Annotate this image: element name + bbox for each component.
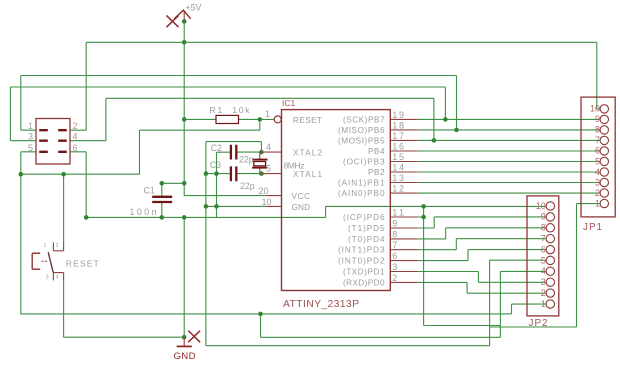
svg-text:8: 8 [392, 229, 397, 239]
svg-text:5: 5 [595, 156, 600, 166]
svg-text:1: 1 [541, 299, 546, 309]
svg-text:JP2: JP2 [529, 318, 548, 329]
svg-text:3: 3 [46, 275, 49, 281]
svg-text:1: 1 [595, 198, 600, 208]
svg-text:(TXD)PD1: (TXD)PD1 [343, 267, 385, 276]
svg-text:10: 10 [536, 201, 546, 211]
svg-text:3: 3 [595, 177, 600, 187]
svg-text:GND: GND [174, 351, 196, 362]
svg-text:13: 13 [392, 173, 404, 183]
svg-text:4: 4 [541, 266, 546, 276]
svg-text:(MISO)PB6: (MISO)PB6 [338, 126, 385, 135]
svg-text:8: 8 [541, 223, 546, 233]
svg-text:C1: C1 [144, 186, 155, 196]
svg-text:2: 2 [595, 188, 600, 198]
svg-text:VCC: VCC [292, 192, 311, 201]
svg-text:(SCK)PB7: (SCK)PB7 [343, 115, 385, 124]
svg-text:JP1: JP1 [583, 222, 602, 233]
svg-text:2: 2 [392, 273, 397, 283]
svg-text:+5V: +5V [186, 3, 202, 13]
svg-text:11: 11 [392, 207, 404, 217]
svg-text:17: 17 [392, 131, 404, 141]
svg-text:2: 2 [73, 121, 78, 131]
svg-text:(INT0)PD2: (INT0)PD2 [338, 257, 385, 266]
svg-text:14: 14 [392, 162, 404, 172]
svg-text:2: 2 [56, 243, 59, 249]
svg-text:7: 7 [392, 240, 397, 250]
svg-text:(RXD)PD0: (RXD)PD0 [343, 278, 385, 287]
svg-text:6: 6 [392, 251, 397, 261]
svg-text:19: 19 [392, 110, 404, 120]
svg-text:PB4: PB4 [368, 147, 385, 156]
svg-text:(INT1)PD3: (INT1)PD3 [338, 246, 385, 255]
svg-text:16: 16 [392, 141, 404, 151]
svg-text:3: 3 [28, 132, 33, 142]
svg-text:C3: C3 [210, 160, 221, 170]
svg-text:18: 18 [392, 120, 404, 130]
svg-text:10: 10 [262, 197, 272, 207]
svg-text:4: 4 [266, 142, 271, 152]
svg-text:10: 10 [590, 104, 600, 114]
svg-text:3: 3 [541, 277, 546, 287]
svg-text:9: 9 [595, 114, 600, 124]
svg-text:5: 5 [541, 255, 546, 265]
svg-text:4: 4 [56, 275, 59, 281]
svg-text:XTAL2: XTAL2 [293, 148, 322, 157]
svg-text:12: 12 [392, 184, 404, 194]
svg-text:7: 7 [541, 233, 546, 243]
svg-text:XTAL1: XTAL1 [293, 170, 322, 179]
svg-text:1: 1 [265, 109, 270, 119]
svg-text:4: 4 [595, 167, 600, 177]
svg-text:20: 20 [259, 186, 269, 196]
svg-text:RESET: RESET [293, 116, 322, 125]
svg-text:(OCI)PB3: (OCI)PB3 [343, 157, 385, 166]
svg-text:22p: 22p [240, 181, 255, 191]
svg-text:9: 9 [392, 218, 397, 228]
svg-text:GND: GND [292, 203, 311, 212]
svg-text:15: 15 [392, 152, 404, 162]
svg-text:9: 9 [541, 212, 546, 222]
svg-text:6: 6 [73, 143, 78, 153]
svg-text:1: 1 [28, 121, 33, 131]
svg-text:4: 4 [73, 132, 78, 142]
svg-text:(ICP)PD6: (ICP)PD6 [343, 213, 385, 222]
svg-text:PB2: PB2 [368, 168, 385, 177]
svg-text:6: 6 [595, 146, 600, 156]
svg-text:ATTINY_2313P: ATTINY_2313P [283, 299, 359, 310]
svg-text:(T1)PD5: (T1)PD5 [348, 224, 385, 233]
svg-text:6: 6 [541, 244, 546, 254]
svg-text:22p: 22p [239, 155, 254, 165]
svg-text:7: 7 [595, 135, 600, 145]
svg-text:(T0)PD4: (T0)PD4 [348, 235, 385, 244]
svg-text:IC1: IC1 [282, 98, 296, 108]
svg-text:RESET: RESET [66, 259, 100, 269]
svg-text:3: 3 [392, 262, 397, 272]
svg-text:2: 2 [541, 288, 546, 298]
svg-text:5: 5 [266, 164, 271, 174]
svg-text:(AIN0)PB0: (AIN0)PB0 [338, 189, 385, 198]
svg-text:(MOSI)PB5: (MOSI)PB5 [338, 136, 385, 145]
svg-text:C2: C2 [211, 143, 222, 153]
svg-text:5: 5 [28, 143, 33, 153]
svg-text:1: 1 [44, 243, 47, 249]
svg-text:8: 8 [595, 125, 600, 135]
svg-text:(AIN1)PB1: (AIN1)PB1 [338, 178, 385, 187]
